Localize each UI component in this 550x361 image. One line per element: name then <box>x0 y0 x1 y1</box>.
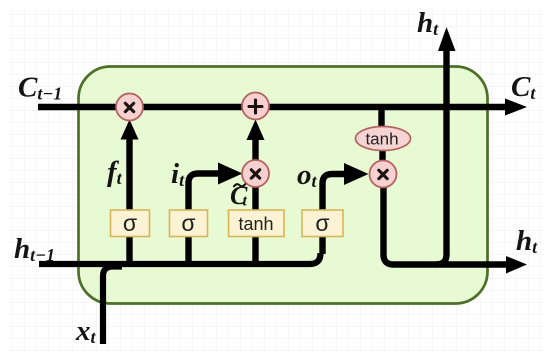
gate sigma 2 (input) <box>170 210 208 237</box>
svg-text:σ: σ <box>315 210 329 236</box>
wire forget gate vertical <box>126 136 132 262</box>
wire output h (bottom right) <box>384 186 509 265</box>
gate tanh box (candidate) <box>229 210 285 237</box>
svg-text:tanh: tanh <box>238 214 273 234</box>
operator add <box>242 93 269 120</box>
wire candidate line <box>252 161 258 262</box>
wire tanh branch from C line <box>378 107 384 129</box>
gate sigma 3 (output) <box>302 210 343 237</box>
svg-text:tanh: tanh <box>365 130 398 149</box>
arrowhead h_t top <box>438 27 456 51</box>
wire x_t input <box>103 267 122 345</box>
wire input gate i <box>189 174 221 263</box>
svg-text:σ: σ <box>181 210 195 236</box>
arrowhead into forget multiply <box>121 120 139 140</box>
LSTM cell body <box>79 67 488 304</box>
gate sigma 1 (forget) <box>111 210 150 237</box>
wire output gate o <box>323 174 347 254</box>
arrowhead h_t right <box>506 256 527 274</box>
wire candidate to add <box>252 137 258 160</box>
operator tanh ellipse <box>356 127 411 151</box>
operator input multiply <box>242 160 269 187</box>
wire tanh ellipse to output multiply <box>379 148 385 163</box>
arrowhead into add <box>247 120 265 141</box>
svg-text:t: t <box>243 193 248 210</box>
arrowhead into output multiply <box>344 163 369 185</box>
svg-text:σ: σ <box>123 210 137 236</box>
wire h input (bottom horizontal left) <box>39 253 321 264</box>
wire cell-state C (top horizontal) <box>38 104 508 111</box>
operator forget multiply <box>116 94 143 121</box>
operator output multiply <box>370 161 397 188</box>
arrowhead into input multiply <box>218 163 243 185</box>
wire h_t up branch <box>436 48 447 265</box>
arrowhead C_t <box>505 99 527 116</box>
